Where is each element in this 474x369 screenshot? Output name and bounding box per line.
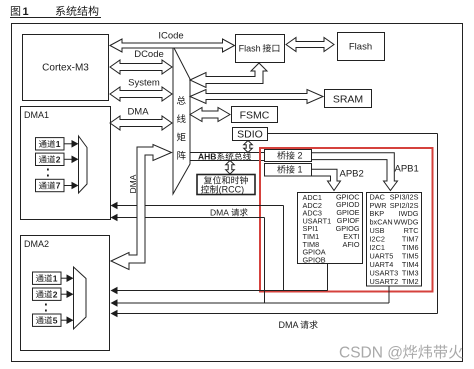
AHB system bus lines	[190, 152, 264, 154]
svg-text:APB1: APB1	[395, 164, 419, 175]
Flash 接口 box	[236, 35, 285, 63]
svg-text:APB2: APB2	[340, 169, 364, 180]
svg-text:2: 2	[56, 155, 61, 165]
svg-text:DMA2: DMA2	[24, 239, 49, 249]
svg-text:CSDN @: CSDN @	[339, 345, 403, 362]
title 图1 系统结构	[11, 6, 20, 16]
svg-text:1: 1	[298, 165, 303, 175]
DMA request line A (APB1 group to DMA1)	[112, 205, 284, 207]
System bus arrow	[110, 87, 172, 101]
wire 通道5 to funnel	[61, 319, 67, 321]
red highlight rectangle	[260, 148, 433, 292]
DMA1 box	[21, 107, 111, 220]
DMA2 channel 通道5 box	[33, 314, 62, 326]
bridge 桥接1 box	[265, 164, 312, 177]
DMA2 channel 通道1 box	[33, 272, 62, 284]
svg-text:Flash: Flash	[239, 44, 261, 54]
RCC box 复位和时钟控制	[197, 175, 255, 195]
SDIO box	[233, 128, 268, 141]
svg-text:AHB: AHB	[198, 152, 216, 162]
svg-text:Cortex-M3: Cortex-M3	[42, 63, 89, 74]
DMA2 funnel (channel multiplexer)	[74, 267, 87, 329]
svg-text:USART2: USART2	[370, 277, 399, 286]
svg-text:DMA: DMA	[127, 107, 149, 118]
DMA2 request line 1 (from APB2 box)	[327, 264, 329, 291]
wire 通道1 to funnel	[61, 277, 67, 279]
svg-text:7: 7	[56, 181, 61, 191]
svg-text:DMA: DMA	[279, 320, 299, 330]
svg-text:5: 5	[53, 315, 58, 325]
DMA1 bus arrow to matrix	[110, 116, 172, 130]
wire 通道2 to funnel	[64, 158, 72, 160]
svg-text:SRAM: SRAM	[333, 94, 363, 106]
APB2 peripherals box	[298, 193, 363, 264]
svg-text:DMA: DMA	[128, 174, 138, 193]
svg-text:TIM2: TIM2	[402, 277, 419, 286]
svg-text:2: 2	[298, 151, 303, 161]
svg-text:2: 2	[53, 289, 58, 299]
Flash box	[338, 33, 385, 61]
DMA2 request line 3 (from SDIO)	[112, 313, 438, 315]
elbow arrow matrix to Flash interface	[190, 63, 267, 88]
svg-text:1: 1	[56, 139, 61, 149]
DMA2 bus bent double arrow to matrix	[111, 145, 172, 270]
label DMA (rotated, DMA2 bus)	[128, 174, 138, 193]
DMA2 channel 通道2 box	[33, 288, 62, 300]
wire 通道7 to funnel	[64, 185, 72, 187]
APB1 elbow arrow from 桥接2	[312, 153, 398, 191]
svg-text:GPIOB: GPIOB	[303, 255, 326, 264]
svg-text:AFIO: AFIO	[342, 240, 359, 249]
DMA1 channel 通道2 box	[36, 153, 65, 165]
svg-text:(RCC): (RCC)	[219, 185, 245, 195]
APB1 peripherals box	[367, 193, 422, 287]
DMA request line B (APB2 group to DMA1)	[112, 217, 265, 219]
DMA2 channel dots	[45, 304, 47, 306]
svg-text:ICode: ICode	[158, 31, 183, 42]
arrow matrix to SRAM	[190, 90, 323, 104]
vertical arrow AHB to RCC	[226, 161, 235, 175]
arrow matrix to FSMC	[190, 108, 230, 122]
svg-text:DMA: DMA	[210, 208, 229, 218]
Cortex-M3 box	[23, 35, 109, 101]
ICode bus arrow (Cortex to Flash interface)	[110, 39, 235, 52]
FSMC box	[232, 107, 278, 123]
wire SDIO to right side and down to DMA2 request	[268, 133, 438, 135]
bus matrix 总线矩阵	[173, 46, 190, 194]
svg-text:Flash: Flash	[349, 42, 372, 53]
wire 通道2 to funnel	[61, 293, 67, 295]
svg-text:FSMC: FSMC	[240, 110, 270, 122]
arrow Flash接口 to Flash	[286, 38, 334, 52]
title underline	[10, 17, 101, 19]
vertical arrow SDIO to AHB	[244, 141, 253, 153]
SRAM box	[325, 90, 372, 108]
DMA1 channel dots	[47, 169, 49, 171]
DMA1 channel 通道1 box	[36, 138, 65, 150]
bridge 桥接2 box	[265, 150, 312, 162]
svg-text:1: 1	[53, 273, 58, 283]
wire 通道1 to funnel	[64, 143, 72, 145]
APB2 elbow arrow from 桥接1	[312, 169, 341, 190]
DCode bus arrow	[110, 60, 172, 74]
DMA2 request line 2 (from APB1 box)	[388, 286, 390, 303]
svg-text:1: 1	[23, 6, 29, 18]
svg-text:DMA1: DMA1	[24, 110, 49, 120]
svg-text:System: System	[128, 78, 160, 89]
DMA2 box	[21, 236, 110, 351]
svg-text:DCode: DCode	[134, 49, 164, 60]
svg-text:SDIO: SDIO	[237, 129, 263, 141]
DMA1 funnel (channel multiplexer)	[79, 136, 88, 193]
DMA1 channel 通道7 box	[36, 179, 65, 191]
